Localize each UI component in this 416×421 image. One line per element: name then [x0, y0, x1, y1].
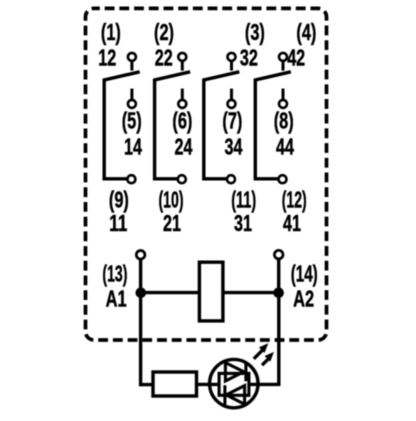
contact 12 NC stub (wire) [130, 61, 133, 71]
wire A1 junction down to lamp branch [139, 293, 142, 386]
svg-text:(2): (2) [154, 19, 174, 45]
svg-text:12: 12 [98, 45, 116, 71]
LED diode D1 cathode bar [244, 362, 247, 382]
svg-text:24: 24 [175, 133, 193, 159]
svg-text:11: 11 [109, 210, 127, 236]
resistor rectangle [153, 372, 197, 396]
wire A1 terminal to junction [139, 260, 142, 293]
coil rectangle [199, 262, 223, 321]
contact 24 NO circle [178, 100, 186, 108]
terminal A1 circle [136, 251, 145, 260]
svg-text:41: 41 [283, 210, 301, 236]
svg-text:(5): (5) [122, 108, 142, 134]
contact 44 NO circle [279, 100, 287, 108]
svg-text:(3): (3) [245, 19, 265, 45]
svg-text:22: 22 [155, 45, 173, 71]
wire LED to right branch [249, 383, 279, 386]
relay enclosure dashed outline [86, 8, 327, 340]
contact 31 common terminal circle [227, 175, 235, 183]
wire A2 junction down to lamp branch [277, 293, 280, 386]
LED light arrow 1 [254, 343, 268, 359]
svg-text:(6): (6) [172, 108, 192, 134]
svg-text:(13): (13) [102, 260, 127, 286]
svg-text:34: 34 [225, 133, 243, 159]
pole 3 common bar and blade (wire) [204, 72, 240, 179]
LED light arrow 2 [262, 352, 274, 365]
pole 1 common bar and blade (wire) [104, 72, 140, 179]
svg-text:(14): (14) [291, 260, 318, 286]
contact 42 NC stub (wire) [282, 61, 285, 71]
svg-text:44: 44 [276, 133, 294, 159]
wire resistor to LED [197, 383, 220, 386]
wire A1 to coil to A2 [141, 291, 279, 294]
contact 24 NO stub (wire) [181, 89, 184, 100]
svg-text:(4): (4) [296, 19, 316, 45]
svg-text:32: 32 [240, 45, 258, 71]
LED indicator circle [210, 359, 258, 407]
contact 12 terminal circle [128, 53, 136, 61]
svg-text:21: 21 [163, 210, 181, 236]
contact 21 common terminal circle [178, 175, 186, 183]
wire A2 terminal to junction [277, 260, 280, 293]
svg-text:A2: A2 [293, 285, 314, 311]
contact 44 NO stub (wire) [282, 89, 285, 100]
pole 4 common bar and blade (wire) [255, 72, 290, 179]
LED diode D2 triangle [226, 386, 244, 405]
contact 14 NO circle [128, 100, 136, 108]
contact 41 common terminal circle [279, 175, 287, 183]
contact 34 NO stub (wire) [230, 89, 233, 100]
LED bridge frame (wires) [219, 373, 249, 395]
svg-text:14: 14 [124, 133, 142, 159]
contact 14 NO stub (wire) [130, 89, 133, 100]
svg-text:(11): (11) [231, 187, 256, 213]
wire lamp branch left to resistor [139, 383, 153, 386]
svg-text:(8): (8) [274, 108, 294, 134]
contact 22 terminal circle [178, 53, 186, 61]
contact 11 common terminal circle [127, 175, 135, 183]
contact 32 NC stub (wire) [230, 61, 233, 71]
LED diode D2 cathode bar [223, 385, 226, 405]
pole 2 common bar and blade (wire) [155, 72, 191, 179]
contact 34 NO circle [228, 100, 236, 108]
contact 42 terminal circle [279, 53, 287, 61]
svg-text:A1: A1 [106, 285, 127, 311]
svg-text:(7): (7) [222, 108, 242, 134]
svg-text:(12): (12) [282, 187, 307, 213]
terminal A2 circle [274, 250, 283, 259]
contact 22 NC stub (wire) [181, 61, 184, 71]
svg-text:(10): (10) [159, 187, 184, 213]
contact 32 terminal circle [228, 53, 236, 61]
svg-text:(1): (1) [101, 19, 121, 45]
LED diode D1 triangle [225, 363, 243, 381]
node A1 junction dot [136, 288, 147, 299]
node A2 junction dot [273, 288, 284, 299]
svg-text:(9): (9) [109, 187, 129, 213]
svg-text:31: 31 [234, 210, 252, 236]
svg-text:42: 42 [287, 45, 305, 71]
